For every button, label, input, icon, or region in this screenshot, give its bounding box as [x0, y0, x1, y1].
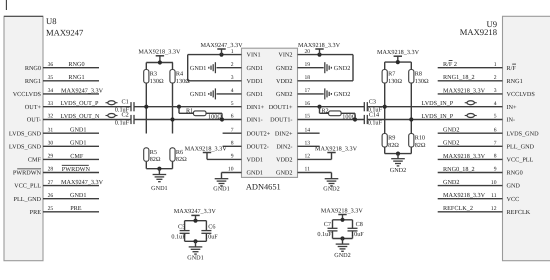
power MAX9218_3.3V decoupling rail — [338, 214, 346, 216]
svg-text:IN+: IN+ — [507, 104, 518, 111]
capacitor C7 0.1uF — [332, 220, 334, 229]
svg-text:4: 4 — [231, 88, 234, 94]
svg-text:PRE: PRE — [30, 209, 42, 216]
svg-text:GND1: GND1 — [213, 185, 230, 192]
resistor R9 82 — [382, 134, 387, 148]
ground GND2 at ADN pin 19 — [298, 67, 324, 69]
svg-text:MAX9218_3.3V: MAX9218_3.3V — [443, 192, 486, 199]
IC U8 MAX9247 body — [4, 16, 43, 260]
svg-text:MAX9247_3.3V: MAX9247_3.3V — [174, 208, 217, 215]
wire ADN pin 7 stub — [223, 132, 242, 134]
svg-text:GND2: GND2 — [443, 140, 460, 147]
svg-text:GND1: GND1 — [247, 65, 264, 72]
U9 pin 7 PLL_GND — [438, 145, 503, 147]
svg-text:R/F: R/F — [507, 65, 517, 72]
svg-text:6: 6 — [494, 127, 497, 133]
wire LVDS_OUT_N U8.32 to ADN.6 — [43, 119, 131, 121]
node R4/LVDS_N junction — [170, 117, 174, 121]
svg-text:DIN1-: DIN1- — [247, 117, 263, 124]
wire to left GND rail — [145, 162, 147, 169]
svg-text:VCCLVDS: VCCLVDS — [507, 91, 536, 98]
power MAX9218_3.3V at ADN pin 12 — [298, 158, 332, 160]
resistor R10 82 — [409, 134, 414, 148]
svg-text:18: 18 — [305, 75, 311, 81]
wire VIN2 to VDD2 jog — [298, 54, 354, 56]
svg-text:C2: C2 — [122, 111, 129, 118]
svg-text:DIN2-: DIN2- — [276, 143, 292, 150]
svg-text:MAX9218_3.3V: MAX9218_3.3V — [315, 145, 358, 152]
svg-text:10uF: 10uF — [205, 233, 218, 240]
svg-text:LVDS_OUT_N: LVDS_OUT_N — [61, 113, 100, 120]
svg-text:GND1: GND1 — [187, 255, 204, 262]
wire LVDS_OUT_P U8.33 to ADN.5 — [43, 106, 131, 108]
svg-text:LVDS_GND: LVDS_GND — [9, 143, 42, 150]
svg-text:VDD2: VDD2 — [276, 78, 293, 85]
capacitor C14 — [363, 115, 365, 124]
ground GND1 decoupling — [195, 241, 197, 247]
ground GND2 at ADN pin 11 — [298, 172, 332, 174]
resistor R4 130 — [172, 63, 174, 70]
svg-text:LVDS_OUT_P: LVDS_OUT_P — [61, 100, 99, 107]
svg-text:7: 7 — [494, 141, 497, 147]
svg-text:8: 8 — [494, 154, 497, 160]
resistor R6 82 — [170, 148, 175, 162]
svg-text:GND1: GND1 — [70, 192, 87, 199]
svg-text:RNG1: RNG1 — [25, 78, 41, 85]
resistor R7 130 — [384, 62, 386, 69]
U8 pin 27 VCC_PLL — [43, 185, 99, 187]
svg-text:0.1uF: 0.1uF — [368, 119, 383, 126]
svg-text:REFCLK_2: REFCLK_2 — [443, 205, 473, 212]
U8 pin 30 LVDS_GND — [43, 145, 99, 147]
svg-text:130Ω: 130Ω — [388, 78, 402, 85]
svg-text:MAX9247: MAX9247 — [46, 27, 84, 37]
svg-text:12: 12 — [491, 206, 497, 212]
svg-text:82Ω: 82Ω — [176, 156, 187, 163]
U9 pin 6 LVDS_GND — [438, 132, 503, 134]
power MAX9218_3.3V left rail — [156, 55, 164, 57]
sheet border mark — [5, 0, 7, 10]
svg-text:DOUT2-: DOUT2- — [247, 143, 269, 150]
svg-text:DOUT1-: DOUT1- — [270, 117, 292, 124]
ferrite bead on LVDS_IN_N — [465, 115, 477, 117]
svg-text:GND1: GND1 — [190, 65, 207, 72]
resistor R1 100 — [177, 105, 181, 109]
capacitor C3 — [363, 102, 365, 111]
svg-text:VCC_PLL: VCC_PLL — [14, 183, 41, 190]
svg-text:C1: C1 — [122, 99, 129, 106]
U8 pin 25 PRE — [43, 211, 99, 213]
svg-text:GND1: GND1 — [151, 185, 168, 192]
svg-text:27: 27 — [48, 180, 54, 186]
svg-text:CMF: CMF — [70, 153, 84, 160]
power MAX9218_3.3V at VIN2 — [317, 53, 321, 57]
svg-text:C5: C5 — [178, 223, 185, 230]
svg-text:R8: R8 — [415, 71, 422, 78]
svg-text:MAX9218_3.3V: MAX9218_3.3V — [443, 87, 486, 94]
svg-text:130Ω: 130Ω — [176, 78, 190, 85]
svg-text:GND1: GND1 — [190, 91, 207, 98]
svg-text:C6: C6 — [208, 223, 215, 230]
wire to right GND rail — [384, 148, 386, 154]
svg-text:GND2: GND2 — [323, 185, 340, 192]
svg-text:17: 17 — [305, 88, 311, 94]
U8 pin 28 PWRDWN — [43, 172, 99, 174]
svg-text:29: 29 — [48, 154, 54, 160]
power MAX9247_3.3V decoupling rail — [191, 214, 199, 216]
svg-text:R10: R10 — [415, 135, 425, 142]
svg-text:MAX9218_3.3V: MAX9218_3.3V — [138, 49, 181, 56]
svg-text:GND2: GND2 — [276, 65, 293, 72]
wire right rail — [385, 61, 412, 63]
capacitor C1 — [130, 102, 132, 111]
svg-text:35: 35 — [48, 75, 54, 81]
svg-text:MAX9247_3.3V: MAX9247_3.3V — [61, 87, 104, 94]
svg-text:R3: R3 — [150, 71, 157, 78]
svg-text:MAX9218_3.3V: MAX9218_3.3V — [377, 49, 420, 56]
svg-text:5: 5 — [494, 114, 497, 120]
IC ADN4651 body — [242, 48, 298, 177]
svg-text:VCC_PLL: VCC_PLL — [507, 157, 534, 164]
svg-text:GND1: GND1 — [70, 140, 87, 147]
svg-text:130Ω: 130Ω — [415, 78, 429, 85]
ground GND2 right network — [397, 154, 399, 159]
svg-text:REFCLK: REFCLK — [507, 209, 531, 216]
U9 pin 1 R/F — [438, 67, 503, 69]
wire R4 column — [172, 84, 174, 134]
U9 pin 11 VCC — [438, 198, 503, 200]
svg-text:VDD1: VDD1 — [247, 157, 264, 164]
ground GND2 at ADN pin 17 — [298, 93, 324, 95]
svg-text:LVDS_GND: LVDS_GND — [9, 130, 42, 137]
svg-text:GND2: GND2 — [443, 179, 460, 186]
resistor R8 130 — [410, 62, 412, 69]
svg-text:82Ω: 82Ω — [415, 142, 426, 149]
svg-text:IN-: IN- — [507, 117, 516, 124]
svg-text:MAX9218_3.3V: MAX9218_3.3V — [298, 42, 341, 49]
node R3/LVDS_P junction — [144, 105, 148, 109]
resistor R3 130 — [145, 63, 147, 70]
svg-text:PWRDWN: PWRDWN — [13, 170, 42, 177]
svg-text:MAX9247_3.3V: MAX9247_3.3V — [200, 42, 243, 49]
svg-text:DOUT1+: DOUT1+ — [269, 104, 293, 111]
svg-text:RNG1_18_2: RNG1_18_2 — [443, 74, 475, 81]
ferrite bead on LVDS_IN_P — [465, 102, 477, 104]
svg-text:6: 6 — [231, 114, 234, 120]
svg-text:26: 26 — [48, 193, 54, 199]
svg-text:R4: R4 — [176, 71, 183, 78]
svg-text:DIN2+: DIN2+ — [275, 130, 293, 137]
ferrite bead on LVDS_OUT_P — [106, 102, 118, 104]
svg-text:10uF: 10uF — [351, 231, 364, 238]
svg-text:130Ω: 130Ω — [150, 78, 164, 85]
svg-text:VCCLVDS: VCCLVDS — [13, 91, 42, 98]
svg-text:ADN4651: ADN4651 — [246, 182, 281, 191]
svg-text:LVDS_IN_P: LVDS_IN_P — [422, 113, 454, 120]
svg-text:3: 3 — [231, 75, 234, 81]
ground GND1 at ADN pin 10 — [222, 172, 242, 174]
svg-text:PLL_GND: PLL_GND — [507, 143, 535, 150]
svg-text:32: 32 — [48, 114, 54, 120]
U8 pin 31 LVDS_GND — [43, 132, 99, 134]
power MAX9218_3.3V right rail — [394, 55, 402, 57]
svg-text:MAX9218_3.3V: MAX9218_3.3V — [185, 145, 228, 152]
svg-text:C7: C7 — [324, 221, 331, 228]
svg-text:GND: GND — [507, 183, 521, 190]
svg-text:C14: C14 — [369, 111, 379, 118]
capacitor C8 10uF — [352, 220, 354, 229]
svg-text:GND2: GND2 — [334, 65, 351, 72]
svg-text:VIN2: VIN2 — [278, 52, 292, 59]
capacitor C2 — [130, 115, 132, 124]
svg-text:0.1uF: 0.1uF — [317, 231, 332, 238]
U8 pin 34 VCCLVDS — [43, 93, 99, 95]
svg-text:1: 1 — [494, 62, 497, 68]
svg-text:GND2: GND2 — [276, 170, 293, 177]
svg-text:OUT-: OUT- — [27, 117, 41, 124]
IC U9 MAX9218 body — [503, 16, 550, 260]
U9 pin 9 RNG0 — [438, 172, 503, 174]
wire LVDS_IN_P ADN.16 to U9.4 — [298, 106, 365, 108]
capacitor C6 10uF — [205, 221, 207, 231]
wire R8 column — [410, 84, 412, 134]
svg-text:GND2: GND2 — [390, 167, 407, 174]
svg-text:3: 3 — [494, 88, 497, 94]
svg-text:2: 2 — [494, 75, 497, 81]
svg-text:CMF: CMF — [28, 157, 42, 164]
wire R7 column — [384, 84, 386, 134]
svg-text:11: 11 — [491, 193, 497, 199]
wire C5/C6 top rail — [185, 220, 207, 222]
ground GND1 left network — [158, 169, 160, 175]
svg-text:VCC: VCC — [507, 196, 520, 203]
svg-text:RNG0: RNG0 — [68, 61, 84, 68]
svg-text:82Ω: 82Ω — [388, 142, 399, 149]
wire C7/C8 bottom rail — [333, 238, 353, 240]
svg-text:R5: R5 — [150, 149, 157, 156]
node R8/LVDS_N junction — [409, 117, 413, 121]
svg-text:10: 10 — [491, 180, 497, 186]
svg-text:MAX9218_3.3V: MAX9218_3.3V — [321, 207, 364, 214]
U8 pin 36 RNG0 — [43, 67, 99, 69]
svg-text:RNG0_18_2: RNG0_18_2 — [443, 166, 475, 173]
svg-text:GND1: GND1 — [70, 127, 87, 134]
svg-text:C8: C8 — [356, 221, 363, 228]
svg-text:LVDS_IN_P: LVDS_IN_P — [422, 100, 454, 107]
svg-text:GND2: GND2 — [334, 91, 351, 98]
U8 pin 29 CMF — [43, 158, 99, 160]
svg-text:DIN1+: DIN1+ — [247, 104, 265, 111]
svg-text:R2: R2 — [321, 107, 328, 114]
svg-text:GND1: GND1 — [247, 170, 264, 177]
U8 pin 35 RNG1 — [43, 80, 99, 82]
svg-text:30: 30 — [48, 141, 54, 147]
svg-text:MAX9218_3.3V: MAX9218_3.3V — [443, 153, 486, 160]
svg-text:RNG0: RNG0 — [507, 170, 523, 177]
power MAX9247_3.3V at VIN1 — [219, 53, 223, 57]
svg-text:GND2: GND2 — [443, 127, 460, 134]
svg-text:28: 28 — [48, 167, 54, 173]
wire LVDS_IN_N ADN.15 to U9.5 — [298, 119, 365, 121]
svg-text:GND1: GND1 — [247, 91, 264, 98]
resistor R2 100 — [317, 105, 321, 109]
U9 pin 10 GND — [438, 185, 503, 187]
svg-text:0.1uF: 0.1uF — [115, 119, 130, 126]
ferrite bead on LVDS_OUT_N — [106, 115, 118, 117]
svg-text:U8: U8 — [46, 16, 57, 26]
node R7/LVDS_P junction — [383, 105, 387, 109]
svg-text:C3: C3 — [369, 99, 376, 106]
svg-text:31: 31 — [48, 127, 54, 133]
svg-text:DOUT2+: DOUT2+ — [247, 130, 271, 137]
U9 pin 8 VCC_PLL — [438, 158, 503, 160]
svg-text:R9: R9 — [388, 135, 395, 142]
svg-text:GND2: GND2 — [334, 252, 351, 259]
svg-text:0.1uF: 0.1uF — [171, 233, 186, 240]
wire ADN pin 14 stub — [298, 132, 320, 134]
svg-text:GND2: GND2 — [276, 91, 293, 98]
svg-text:MAX9218: MAX9218 — [460, 27, 497, 37]
svg-text:R/F 2: R/F 2 — [443, 61, 457, 68]
U8 pin 26 PLL_GND — [43, 198, 99, 200]
wire ADN pin 8 stub — [223, 145, 242, 147]
svg-text:R1: R1 — [186, 107, 193, 114]
svg-text:36: 36 — [48, 62, 54, 68]
svg-text:9: 9 — [494, 167, 497, 173]
capacitor C5 0.1uF — [184, 221, 186, 231]
U9 pin 2 RNG1 — [438, 80, 503, 82]
svg-text:RNG0: RNG0 — [25, 65, 41, 72]
svg-text:PRE: PRE — [70, 205, 82, 212]
wire left rail — [146, 62, 173, 64]
svg-text:15: 15 — [305, 114, 311, 120]
ground GND1 at ADN pin 4 — [217, 93, 242, 95]
svg-text:82Ω: 82Ω — [150, 156, 161, 163]
svg-text:R6: R6 — [176, 149, 183, 156]
svg-text:34: 34 — [48, 88, 54, 94]
resistor R5 82 — [144, 148, 149, 162]
svg-text:PLL_GND: PLL_GND — [14, 196, 42, 203]
svg-text:VDD2: VDD2 — [276, 157, 293, 164]
U9 pin 3 VCCLVDS — [438, 93, 503, 95]
ground GND1 at ADN pin 2 — [217, 67, 242, 69]
svg-text:VIN1: VIN1 — [247, 52, 261, 59]
svg-text:LVDS_GND: LVDS_GND — [507, 130, 540, 137]
wire VIN1 to VDD1 jog — [188, 54, 242, 56]
wire C5/C6 bottom rail — [185, 240, 207, 242]
svg-text:MAX9247_3.3V: MAX9247_3.3V — [61, 179, 104, 186]
svg-text:VDD1: VDD1 — [247, 78, 264, 85]
svg-text:25: 25 — [48, 206, 54, 212]
svg-text:OUT+: OUT+ — [25, 104, 42, 111]
ground GND2 decoupling — [342, 239, 344, 245]
power MAX9218_3.3V at ADN pin 9 — [207, 158, 242, 160]
svg-text:RNG1: RNG1 — [507, 78, 523, 85]
svg-text:RNG1: RNG1 — [68, 74, 84, 81]
U9 pin 12 REFCLK — [438, 211, 503, 213]
wire ADN pin 13 stub — [298, 145, 320, 147]
svg-text:PWRDWN: PWRDWN — [62, 166, 91, 173]
wire R3 to LVDS_P — [145, 84, 147, 134]
svg-text:R7: R7 — [388, 71, 395, 78]
wire C7/C8 top rail — [333, 219, 353, 221]
